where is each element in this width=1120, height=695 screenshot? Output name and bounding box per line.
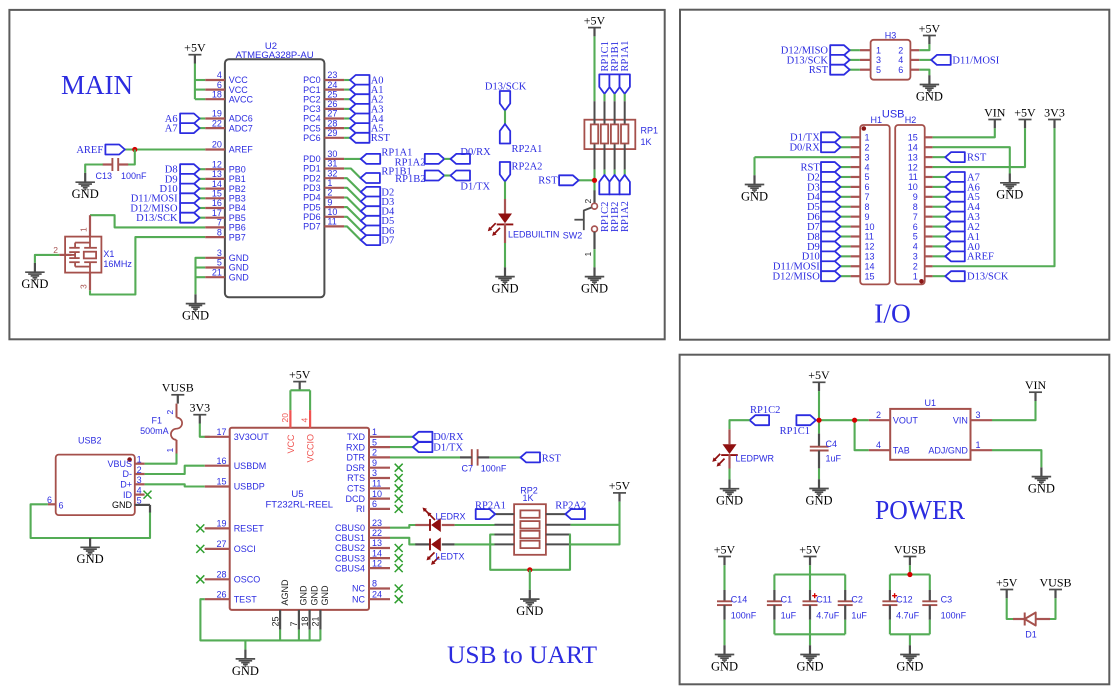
svg-text:4.7uF: 4.7uF	[896, 611, 920, 621]
label D9	[807, 242, 820, 253]
wire RP2A2 to LED	[504, 182, 506, 200]
svg-text:DSR: DSR	[346, 463, 366, 473]
IC U5 FT232RL-REEL body	[230, 428, 369, 610]
no-connect ID pin	[144, 491, 152, 499]
wire AVCC pin 18	[195, 98, 205, 100]
label D8	[807, 232, 820, 243]
label AREF	[76, 145, 103, 156]
label D13/SCK	[787, 55, 829, 66]
label A4	[371, 114, 385, 125]
net flag RP1B2	[425, 171, 445, 181]
wire RP1A1 to RP1	[624, 94, 626, 101]
wire C3 to bottom bus	[929, 620, 931, 635]
U2 pin 28 PC5	[303, 118, 344, 133]
svg-text:+5V: +5V	[584, 13, 606, 27]
wire +5V to D1	[1007, 598, 1013, 619]
svg-text:CTS: CTS	[347, 484, 365, 494]
C4 top lead	[818, 434, 820, 447]
wire GND pin 5	[196, 266, 206, 268]
net flag D2	[361, 187, 381, 197]
svg-text:GND: GND	[299, 585, 309, 606]
section title MAIN	[61, 70, 133, 100]
C1 bottom lead	[773, 605, 775, 620]
label RP1C1 power	[780, 426, 810, 437]
net flag D13/SCK	[830, 55, 850, 65]
USB2 pin 1 mark	[127, 457, 132, 462]
svg-text:PD2: PD2	[303, 173, 321, 183]
ground at SW2	[581, 267, 608, 295]
net flag D11/MOSI	[821, 261, 841, 271]
label D6	[381, 226, 394, 237]
wire DTR to C7	[390, 456, 460, 458]
U5 pin 8 NC	[352, 579, 390, 594]
U5 pin 6 RI	[356, 499, 390, 514]
svg-text:PC6: PC6	[303, 133, 321, 143]
U5 pin 12 CBUS4	[335, 558, 390, 573]
svg-text:13: 13	[908, 152, 918, 162]
svg-text:OSCO: OSCO	[234, 575, 261, 585]
U2 pin 12 PB0	[205, 159, 246, 174]
svg-text:12: 12	[212, 159, 222, 169]
net flag RP1B2	[609, 175, 619, 195]
net flag RP1C2	[599, 175, 609, 195]
svg-text:19: 19	[212, 109, 222, 119]
supply +5V	[289, 367, 311, 390]
supply +5V	[996, 575, 1018, 598]
label D11/MOSI	[131, 194, 178, 205]
svg-text:5: 5	[372, 437, 377, 447]
wire C7 to RST	[489, 456, 520, 458]
svg-text:GND: GND	[232, 664, 259, 678]
label A2	[967, 222, 980, 233]
capacitor C11 4.7uF	[803, 593, 818, 605]
label AREF	[967, 252, 994, 263]
svg-text:14: 14	[372, 548, 382, 558]
svg-text:19: 19	[216, 519, 226, 529]
svg-text:1: 1	[913, 271, 918, 281]
C12 bottom lead	[889, 605, 891, 620]
wire USB2 shell to ground	[31, 504, 150, 538]
svg-text:11: 11	[908, 172, 917, 182]
svg-text:AREF: AREF	[76, 145, 103, 156]
net flag D2	[821, 172, 841, 182]
svg-text:CBUS0: CBUS0	[335, 523, 365, 533]
wire C12 bank bottom bus	[890, 633, 930, 635]
svg-text:100nF: 100nF	[731, 611, 757, 621]
wire ground stem USB2	[89, 537, 91, 540]
wire LEDPWR to ground	[728, 469, 730, 480]
label C4 1uF	[826, 439, 842, 464]
U2 pin 29 PC6	[303, 128, 344, 143]
svg-text:5: 5	[913, 232, 918, 242]
svg-text:2: 2	[137, 465, 142, 475]
net flag A0	[945, 241, 965, 251]
label RP2A2	[512, 161, 543, 172]
svg-text:GND: GND	[896, 659, 923, 673]
svg-text:3: 3	[217, 248, 222, 258]
svg-text:RXD: RXD	[346, 442, 366, 452]
wire D7 to H1 pin 10	[841, 226, 851, 228]
svg-text:LEDRX: LEDRX	[436, 511, 466, 521]
wire GND pin 21	[196, 276, 206, 278]
U5 pin 26 TEST	[205, 589, 258, 604]
svg-text:GND: GND	[72, 187, 99, 201]
svg-text:ADC6: ADC6	[229, 114, 253, 124]
H2 pin 6	[913, 222, 933, 232]
svg-text:H3: H3	[885, 31, 897, 41]
svg-text:PC5: PC5	[303, 123, 321, 133]
label D12/MISO	[781, 46, 829, 57]
X1 pin 1 lead	[89, 215, 91, 237]
wire PB6 to crystal pin 1	[90, 215, 205, 227]
svg-text:+5V: +5V	[714, 542, 736, 556]
net flag RST	[945, 152, 965, 162]
net flag D3	[821, 182, 841, 192]
H1 pin 2	[851, 142, 870, 152]
ground at U2	[182, 294, 209, 322]
wire C11 bank top bus	[774, 573, 845, 575]
svg-text:RST: RST	[967, 153, 987, 164]
svg-text:23: 23	[372, 518, 382, 528]
wire H2 pin 1 D13/SCK	[933, 275, 946, 277]
LEDRX cathode lead	[415, 524, 430, 526]
label D4	[381, 207, 395, 218]
net flag A3	[350, 104, 370, 114]
wire A3	[344, 108, 350, 110]
svg-text:VUSB: VUSB	[1039, 575, 1071, 589]
label RST	[801, 162, 821, 173]
svg-text:1: 1	[372, 427, 377, 437]
label C13 100nF	[95, 171, 147, 181]
capacitor C2 1uF	[838, 601, 853, 605]
label D3	[807, 182, 820, 193]
wire RP1C1 to RP1	[603, 94, 605, 101]
svg-text:2: 2	[327, 188, 332, 198]
net flag A5	[350, 123, 370, 133]
ground at RP2	[516, 590, 543, 618]
wire D10 to H1 pin 13	[841, 255, 851, 257]
svg-text:D1: D1	[1025, 630, 1037, 640]
svg-text:3: 3	[372, 468, 377, 478]
IC U2 ATMEGA328P-AU body	[225, 41, 325, 297]
svg-text:OSCI: OSCI	[234, 544, 256, 554]
svg-text:PD0: PD0	[303, 154, 321, 164]
supply VIN	[1025, 378, 1047, 401]
svg-text:VIN: VIN	[984, 105, 1006, 119]
svg-text:9: 9	[865, 212, 870, 222]
wire C2 to bottom bus	[844, 620, 846, 635]
svg-text:3: 3	[976, 410, 981, 420]
svg-text:RST: RST	[809, 65, 829, 76]
net flag A7	[180, 123, 200, 133]
wire D+ to USBDP	[145, 484, 205, 486]
wire D9	[200, 178, 206, 180]
U5 pin 10 DCD	[346, 489, 391, 504]
wire to VCC pin	[289, 390, 291, 410]
wire F1 to VBUS	[145, 454, 177, 464]
svg-text:D1/TX: D1/TX	[460, 181, 490, 192]
U5 pin 3 RTS	[347, 468, 390, 483]
net flag RP1A2	[425, 154, 445, 164]
svg-text:GND: GND	[741, 189, 768, 203]
wire VCC bridge	[290, 389, 310, 391]
net flag D3	[361, 197, 381, 207]
label C7 100nF	[461, 464, 506, 474]
label RP1B1	[381, 167, 411, 178]
svg-text:C4: C4	[826, 439, 838, 449]
label C3 100nF	[941, 594, 967, 620]
LED LEDTX	[427, 537, 441, 565]
section frame POWER	[680, 355, 1110, 685]
D1 anode lead	[1036, 618, 1050, 620]
wire C12 to bottom bus	[889, 620, 891, 635]
H1 pin 11	[851, 232, 874, 242]
wire GND pin 3	[196, 258, 206, 295]
wire D8	[200, 168, 206, 170]
USB2 GND pin drop	[149, 505, 151, 513]
wire H2 pin 2 to 3V3	[933, 128, 1055, 266]
svg-text:14: 14	[212, 179, 222, 189]
C14 bottom lead	[723, 605, 725, 620]
U2 pin 7 PB6	[205, 218, 246, 233]
label A6	[967, 182, 980, 193]
svg-text:+5V: +5V	[1014, 105, 1036, 119]
svg-text:PB3: PB3	[229, 194, 246, 204]
svg-text:4: 4	[865, 162, 870, 172]
LEDTX cathode lead	[415, 543, 430, 545]
svg-text:22: 22	[212, 118, 222, 128]
wire RP1A2 to D0/RX	[444, 158, 450, 160]
wire H2 pin 15 to VIN	[933, 128, 995, 137]
U2 pin 19 ADC6	[205, 109, 253, 124]
wire to TAB	[855, 420, 869, 450]
svg-text:TEST: TEST	[234, 594, 258, 604]
supply VUSB	[1039, 575, 1071, 598]
svg-text:FT232RL-REEL: FT232RL-REEL	[266, 500, 334, 511]
wire RP1 to RP1A2	[624, 170, 626, 175]
wire LEDTX to RP2	[455, 543, 495, 545]
wire RP1C2 to LEDPWR	[730, 420, 750, 429]
label RP1A2	[620, 201, 631, 232]
net flag D12/MISO	[821, 271, 841, 281]
U2 pin 23 PC0	[303, 70, 344, 85]
U2 pin 5 GND	[205, 258, 249, 273]
svg-text:GND: GND	[996, 188, 1023, 202]
capacitor C3 100nF	[922, 601, 937, 605]
svg-text:9: 9	[327, 197, 332, 207]
svg-text:AREF: AREF	[967, 252, 994, 263]
svg-text:27: 27	[327, 109, 337, 119]
net flag RP2A1	[476, 509, 496, 519]
U5 pin 27 OSCI	[205, 539, 256, 554]
U5 pin 9 DSR	[346, 458, 390, 473]
svg-text:RESET: RESET	[234, 524, 265, 534]
svg-text:18: 18	[212, 89, 222, 99]
no-connect U5 DSR	[395, 464, 403, 472]
wire +5V to C11 bank	[809, 565, 811, 574]
wire C12 bank top bus	[890, 573, 930, 575]
wire RP1B1 to RP1	[614, 94, 616, 101]
net flag RST	[830, 65, 850, 75]
wire H1 pin 3 to ground	[755, 156, 851, 158]
pin number 3 X1	[79, 284, 89, 289]
H1 pin 1	[851, 133, 870, 143]
svg-text:POWER: POWER	[875, 495, 965, 525]
wire H2 pin 7 A3	[933, 216, 946, 218]
label A5	[371, 124, 384, 135]
U2 pin 25 PC2	[303, 89, 344, 104]
section title I/O	[874, 298, 911, 329]
svg-text:VBUS: VBUS	[107, 459, 132, 469]
wire D5 to H1 pin 8	[841, 206, 851, 208]
net flag RP2A1	[500, 124, 510, 144]
U5 pin 24 NC	[352, 589, 390, 604]
wire RP1 to RP1B2	[614, 170, 616, 175]
svg-text:RP2A2: RP2A2	[555, 500, 586, 511]
label RP1C2	[600, 202, 611, 232]
svg-text:4: 4	[898, 55, 903, 65]
svg-text:2: 2	[876, 410, 881, 420]
svg-text:3: 3	[876, 55, 881, 65]
svg-text:26: 26	[216, 589, 226, 599]
net flag A4	[945, 202, 965, 212]
svg-text:C1: C1	[781, 594, 793, 604]
LEDTX anode lead	[442, 543, 455, 545]
svg-text:1uF: 1uF	[826, 454, 842, 464]
supply +5V	[799, 542, 821, 565]
wire H2 pin 5 A1	[933, 235, 946, 237]
net flag AREF	[105, 145, 125, 155]
svg-text:30: 30	[327, 149, 337, 159]
no-connect U5 CTS	[395, 484, 403, 492]
no-connect U5 CBUS4	[395, 564, 403, 572]
net flag D11/MOSI	[180, 193, 200, 203]
label RP1A2	[395, 157, 426, 168]
svg-text:ADC7: ADC7	[229, 123, 253, 133]
wire VCC pin 4	[195, 79, 205, 81]
wire H3 pin 6 to ground	[919, 70, 929, 76]
net flag D0/RX	[821, 142, 841, 152]
net flag A2	[350, 94, 370, 104]
label D5	[381, 216, 394, 227]
svg-text:CBUS2: CBUS2	[335, 543, 365, 553]
wire A7	[200, 127, 206, 129]
svg-text:GND: GND	[805, 493, 832, 507]
label RP1C1	[600, 41, 611, 71]
U5 pin 23 CBUS0	[335, 518, 390, 533]
label C14 100nF	[731, 594, 757, 620]
svg-text:GND: GND	[581, 282, 608, 296]
net flag RP2A2	[500, 162, 510, 182]
wire U5 pin 18 to bus	[309, 630, 311, 641]
net flag A5	[945, 192, 965, 202]
ground at U5	[232, 650, 259, 678]
svg-text:9: 9	[913, 192, 918, 202]
supply +5V	[919, 21, 941, 44]
net flag A7	[945, 172, 965, 182]
supply +5V	[808, 368, 830, 391]
wire D1/TX to H1 pin 1	[841, 136, 851, 138]
U2 pin 32 PD2	[303, 168, 344, 183]
label D10	[160, 184, 178, 195]
U2 pin 24 PC1	[303, 80, 344, 95]
wire D2 to H1 pin 5	[841, 176, 851, 178]
svg-text:RST: RST	[542, 454, 562, 465]
U2 pin 9 PD5	[303, 197, 344, 212]
H2 pin 11	[908, 172, 932, 182]
svg-text:PD4: PD4	[303, 193, 321, 203]
svg-text:RP1A2: RP1A2	[620, 201, 631, 232]
label D10	[802, 252, 820, 263]
U5 pin 20 VCC	[280, 410, 296, 453]
wire C11 to bottom bus	[809, 620, 811, 635]
svg-text:D13/SCK: D13/SCK	[136, 213, 178, 224]
wire PD to D7	[344, 226, 361, 240]
wire bus to C3	[929, 575, 931, 591]
wire AREF	[125, 148, 205, 150]
wire U5 pin 21 to bus	[319, 630, 321, 641]
svg-text:C7: C7	[461, 464, 473, 474]
svg-text:13: 13	[372, 538, 382, 548]
svg-text:21: 21	[212, 267, 222, 277]
H2 pin 12	[908, 162, 933, 172]
net flag A6	[180, 114, 200, 124]
U5 pin 28 OSCO	[205, 570, 261, 585]
wire A5	[344, 127, 350, 129]
svg-text:PC1: PC1	[303, 85, 321, 95]
wire H2 pin 8 A4	[933, 206, 946, 208]
svg-text:+5V: +5V	[919, 21, 941, 35]
svg-text:D12/MISO: D12/MISO	[773, 272, 821, 283]
connector USB2 body	[56, 436, 135, 516]
U2 pin 4 VCC	[205, 70, 248, 85]
wire bus to C2	[844, 575, 846, 591]
H1 pin 4	[851, 162, 870, 172]
svg-text:16: 16	[216, 456, 226, 466]
wire D1 to VUSB	[1050, 598, 1056, 619]
svg-text:1uF: 1uF	[781, 611, 797, 621]
USB2 pin 3 D+	[120, 475, 144, 489]
wire ADJ/GND to ground	[992, 450, 1041, 467]
svg-text:CBUS1: CBUS1	[335, 533, 365, 543]
no-connect U5 CBUS3	[395, 554, 403, 562]
wire node to C4	[818, 420, 820, 433]
svg-text:20: 20	[280, 413, 290, 423]
svg-text:PB5: PB5	[229, 213, 246, 223]
wire D0/RX to H1 pin 2	[841, 146, 851, 148]
svg-text:PB2: PB2	[229, 184, 246, 194]
H2 pin 5	[913, 232, 933, 242]
svg-text:LEDBUILTIN: LEDBUILTIN	[508, 230, 559, 240]
wire 3V3 to 3V3OUT	[200, 424, 210, 437]
wire LED to ground	[504, 243, 506, 267]
svg-text:GND: GND	[229, 263, 250, 273]
svg-text:17: 17	[216, 427, 226, 437]
net flag D12/MISO	[830, 45, 850, 55]
svg-text:13: 13	[865, 252, 875, 262]
junction VUSB bank	[907, 572, 912, 577]
capacitor C14 100nF	[717, 601, 732, 605]
label A0	[967, 242, 980, 253]
net flag D1/TX	[821, 132, 841, 142]
label D0/RX	[460, 147, 491, 158]
label D0/RX	[789, 143, 820, 154]
svg-text:VIN: VIN	[1025, 378, 1047, 392]
svg-text:U1: U1	[925, 398, 937, 408]
wire +5V to VOUT node	[818, 391, 820, 420]
svg-text:DCD: DCD	[346, 494, 366, 504]
svg-text:PD1: PD1	[303, 164, 321, 174]
